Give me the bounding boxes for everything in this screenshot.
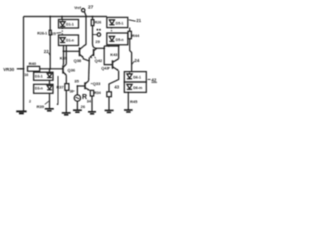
wire Q43 collector up: [118, 45, 120, 59]
diode D1-1: [60, 22, 65, 26]
svg-text:D5-n: D5-n: [116, 38, 124, 42]
svg-text:36: 36: [70, 89, 74, 93]
svg-text:Q36: Q36: [68, 68, 76, 73]
wire R26 top: [92, 17, 94, 20]
wire R37 to ground: [65, 90, 67, 112]
svg-text:16: 16: [24, 73, 28, 77]
wire R34 down: [91, 96, 93, 111]
wire Q33 collector up: [83, 58, 89, 81]
transistor Q38: [79, 48, 81, 57]
svg-text:25: 25: [52, 32, 56, 36]
node rail junction x92.5: [92, 16, 94, 18]
current source I26: [74, 95, 80, 101]
diode D5-1: [109, 20, 114, 24]
diode D1-n: [60, 38, 65, 42]
svg-text:34: 34: [87, 100, 92, 104]
ground D3: [45, 109, 54, 111]
diode D6-1: [127, 74, 132, 78]
ground left: [16, 111, 26, 113]
resistor R26: [91, 20, 94, 26]
node x104: [103, 47, 105, 49]
resistor R41: [107, 92, 112, 97]
diode D5-n box: [107, 33, 128, 45]
wire top rail: [24, 16, 108, 18]
wire stub x58: [57, 76, 59, 104]
node VR30 junction: [23, 68, 25, 70]
wire base rail y68.8: [40, 68, 63, 70]
svg-text:D3-n: D3-n: [35, 87, 43, 91]
ground R34: [88, 112, 96, 114]
svg-text:Q33: Q33: [93, 81, 101, 86]
svg-text:24: 24: [134, 58, 139, 63]
svg-text:K43: K43: [110, 52, 118, 57]
wire Q33 emitter chain: [90, 89, 92, 91]
svg-text:27: 27: [88, 4, 94, 10]
transistor Q33: [84, 82, 86, 89]
svg-text:R26: R26: [95, 20, 102, 24]
svg-text:R40: R40: [29, 61, 37, 66]
wire D1 bottom to Q36 collector: [62, 46, 65, 66]
diode D1-1 box: [59, 20, 79, 29]
svg-text:Q38: Q38: [74, 58, 82, 63]
resistor R34: [90, 90, 93, 96]
diode D6-m box: [124, 82, 146, 92]
node Q38 base tee: [63, 50, 65, 52]
svg-text:VR30: VR30: [3, 67, 15, 72]
svg-text:D1-n: D1-n: [66, 38, 74, 42]
wire VR30 lead: [17, 68, 24, 70]
wire Q38 collector to rail: [83, 17, 86, 47]
svg-text:D6-1: D6-1: [133, 75, 141, 79]
wire source down: [76, 101, 78, 109]
wire hook to x104: [93, 44, 105, 48]
ground R37: [62, 113, 71, 115]
wire Q33 base: [77, 85, 84, 87]
wire Q36 collector up: [65, 46, 67, 65]
transistor Q36: [62, 65, 64, 73]
node source junction: [77, 85, 79, 87]
svg-text:D3-1: D3-1: [35, 74, 43, 78]
node rail junction x62: [61, 16, 63, 18]
resistor R28-1: [49, 30, 51, 35]
diode D5-1 box: [107, 17, 128, 27]
wire y46 horizontal: [104, 45, 118, 47]
diode D3-1 box: [34, 72, 53, 80]
wire R28 branch upper: [49, 17, 51, 31]
wire Q43 chain to ground: [109, 71, 119, 92]
node rail junction x86: [85, 16, 87, 18]
wire x104 vertical: [104, 46, 112, 65]
wire R28 branch lower: [49, 35, 51, 69]
svg-text:D5-1: D5-1: [116, 21, 124, 25]
label 42: [148, 78, 151, 80]
svg-text:R44: R44: [132, 33, 140, 38]
transistor Q43: [112, 60, 114, 69]
svg-text:43: 43: [114, 84, 119, 89]
node D3 tap: [49, 68, 51, 70]
svg-text:R37: R37: [56, 85, 64, 90]
ground Q43: [105, 110, 114, 112]
diode D5-n: [109, 36, 114, 40]
ground I26: [73, 110, 82, 112]
wire D3 feed: [49, 69, 51, 74]
wire R39 leader: [45, 101, 49, 104]
wire 24 leader: [132, 61, 134, 64]
resistor R40: [28, 66, 40, 71]
diode D3-n: [47, 86, 52, 90]
svg-text:R34: R34: [94, 91, 101, 95]
wire source up: [76, 86, 78, 95]
wire label 22 leader: [49, 53, 51, 56]
diode D3-n box: [34, 84, 53, 93]
svg-text:42: 42: [151, 77, 156, 82]
diode D6-1 box: [124, 72, 146, 82]
node y46: [108, 45, 110, 47]
wire 21 leader: [129, 20, 136, 21]
wire dotted D5 string: [111, 28, 113, 33]
svg-text:R39: R39: [37, 104, 45, 109]
dots pair: [97, 29, 99, 31]
terminal 27: [82, 9, 85, 12]
wire R45 down: [127, 92, 129, 109]
diode D6-m: [127, 84, 132, 88]
wire Q38 base: [64, 50, 80, 52]
transistor Q42: [93, 49, 95, 56]
wire D3 bottom: [49, 93, 51, 108]
wire D3 mid: [49, 80, 51, 84]
wire D5 bottom: [118, 45, 120, 46]
wire D1 string top: [61, 17, 63, 20]
wire terminal 27 stub: [84, 12, 86, 17]
svg-text:2: 2: [29, 100, 31, 104]
svg-text:21: 21: [136, 18, 141, 23]
wire R44 top: [129, 28, 131, 32]
wire dotted D1 string: [61, 28, 63, 35]
svg-text:35: 35: [74, 79, 79, 84]
wire Q36 emitter down: [65, 75, 67, 83]
wire R41 to ground: [108, 97, 110, 110]
resistor R44: [128, 31, 131, 38]
node D6 bottom: [127, 92, 129, 94]
wire Q42 emitter down: [88, 58, 90, 62]
wire R26 down: [92, 26, 94, 44]
resistor R37: [65, 84, 69, 91]
ground R45: [124, 110, 133, 112]
svg-text:Q42: Q42: [95, 58, 103, 63]
svg-text:29: 29: [95, 39, 100, 44]
svg-text:D1-1: D1-1: [66, 22, 74, 26]
wire left vertical: [23, 17, 25, 111]
svg-text:26: 26: [81, 104, 86, 109]
terminal 29 stub: [93, 34, 98, 36]
svg-text:22: 22: [44, 49, 49, 54]
diode D3-1: [47, 73, 52, 77]
wire R44 down to D6: [130, 39, 132, 72]
node Q43 collector: [118, 45, 120, 47]
svg-text:Vref: Vref: [74, 6, 82, 10]
node rail junction x50: [49, 16, 51, 18]
svg-text:R28-1: R28-1: [37, 31, 47, 35]
svg-text:D6-m: D6-m: [133, 86, 142, 90]
svg-text:R45: R45: [130, 99, 138, 104]
diode D1-n box: [59, 35, 79, 46]
